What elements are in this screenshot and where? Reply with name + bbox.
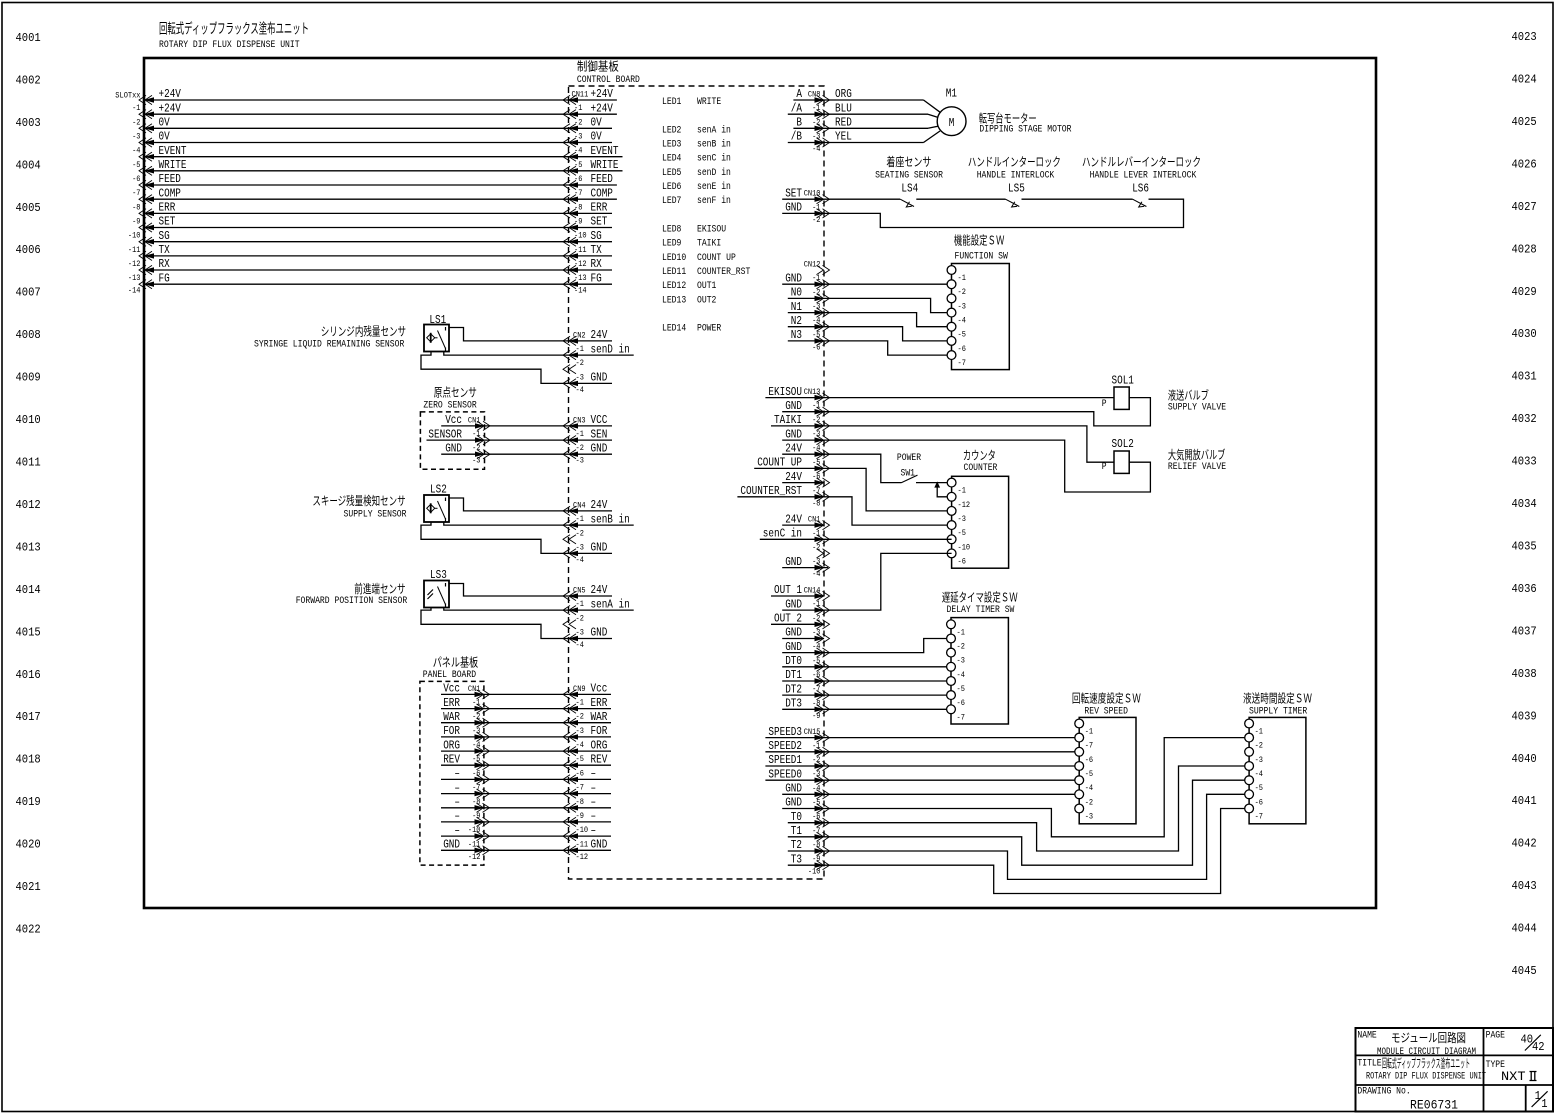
CN8 wire B / RED to motor — [793, 127, 824, 129]
svg-text:–: – — [454, 767, 460, 781]
CN9 stub wire WAR — [569, 722, 612, 724]
svg-text:-5: -5 — [132, 160, 140, 170]
svg-text:M1: M1 — [946, 87, 957, 101]
svg-text:SEN: SEN — [591, 427, 608, 441]
panel CN1 pin symbol 9 — [483, 803, 490, 812]
wire DT0 to delay timer contact 4 — [782, 666, 951, 668]
svg-text:Vcc: Vcc — [445, 413, 462, 427]
svg-text:GND: GND — [785, 271, 802, 285]
svg-text:4026: 4026 — [1512, 157, 1537, 171]
CN9 stub wire – — [569, 807, 612, 809]
svg-text:+24V: +24V — [159, 87, 182, 101]
svg-text:-6: -6 — [1255, 797, 1263, 807]
svg-text:-12: -12 — [958, 500, 971, 510]
supply timer contact circle -7 — [1245, 804, 1254, 813]
svg-text:DIPPING STAGE MOTOR: DIPPING STAGE MOTOR — [979, 124, 1072, 136]
CN1 pin symbol 1 — [823, 521, 830, 530]
svg-text:-12: -12 — [576, 852, 589, 862]
svg-text:42: 42 — [1532, 1040, 1545, 1054]
function SW contact circle 5 — [947, 322, 956, 331]
svg-text:-1: -1 — [957, 627, 965, 637]
CN13 pin symbol 8 — [823, 492, 830, 501]
svg-text:DT0: DT0 — [785, 654, 802, 668]
svg-text:シリンジ内残量センサ: シリンジ内残量センサ — [321, 325, 406, 340]
svg-text:CN5: CN5 — [573, 586, 586, 596]
svg-text:-14: -14 — [128, 286, 141, 296]
svg-text:-9: -9 — [576, 811, 584, 821]
svg-text:4035: 4035 — [1512, 540, 1537, 554]
svg-text:+24V: +24V — [159, 101, 182, 115]
svg-text:-2: -2 — [576, 358, 584, 368]
svg-text:GND: GND — [785, 201, 802, 215]
svg-text:TAIKI: TAIKI — [697, 238, 721, 250]
svg-text:-2: -2 — [472, 443, 480, 453]
svg-text:-5: -5 — [1255, 783, 1263, 793]
svg-text:CN1: CN1 — [468, 415, 481, 425]
svg-text:Vcc: Vcc — [591, 682, 608, 696]
sensor LS3 switch blade — [438, 587, 446, 605]
svg-text:GND: GND — [443, 838, 460, 852]
CN11 pin symbol 14 — [563, 280, 570, 289]
svg-text:senD in: senD in — [591, 342, 630, 356]
wire panel – pin10 CN1 to CN9 — [441, 821, 569, 823]
svg-text:4011: 4011 — [16, 456, 41, 470]
svg-text:WAR: WAR — [591, 710, 608, 724]
CN2 pin symbol 4 — [563, 379, 570, 388]
svg-text:-7: -7 — [576, 783, 584, 793]
svg-text:TX: TX — [159, 243, 170, 257]
svg-text:TITLE: TITLE — [1357, 1058, 1381, 1070]
CN11 stub wire ERR — [569, 212, 613, 214]
svg-text:-3: -3 — [574, 132, 582, 142]
svg-text:SPEED0: SPEED0 — [768, 767, 802, 781]
svg-text:GND: GND — [785, 399, 802, 413]
svg-text:OUT2: OUT2 — [697, 294, 716, 306]
wire 24V stub (CN1) — [782, 524, 824, 526]
svg-text:CN13: CN13 — [804, 387, 821, 397]
CN1 pin symbol 4 — [823, 563, 830, 572]
CN12 pin symbol 1 (no wire) — [823, 265, 830, 274]
delay timer contact circle 4 — [947, 662, 956, 671]
CN9 stub wire – — [569, 778, 612, 780]
CN3 stub wire VCC — [569, 425, 613, 427]
svg-text:4028: 4028 — [1512, 242, 1537, 256]
wire SLOT pin12 TX to CN11-12 — [144, 255, 569, 257]
CN8 wire /A / BLU to motor — [788, 113, 824, 115]
svg-text:COUNTER_RST: COUNTER_RST — [740, 484, 802, 498]
svg-text:SET: SET — [785, 186, 802, 200]
svg-text:-3: -3 — [472, 456, 480, 466]
svg-text:-9: -9 — [132, 217, 140, 227]
svg-text:senA in: senA in — [697, 124, 731, 136]
wire LS3 senA output to CN5 — [444, 608, 569, 611]
wire GND staircase to supply timer contact 2 — [782, 738, 1249, 837]
svg-text:EVENT: EVENT — [591, 144, 619, 158]
SLOT pin symbol 8 — [139, 195, 146, 204]
motor lead diagonals — [924, 100, 941, 143]
SLOT pin symbol 3 — [139, 124, 146, 133]
svg-text:CN10: CN10 — [804, 189, 821, 199]
svg-text:DT1: DT1 — [785, 668, 802, 682]
zero sensor CN1 pin symbol 3 — [483, 450, 490, 459]
svg-text:-11: -11 — [128, 245, 141, 255]
svg-text:LS4: LS4 — [901, 182, 918, 196]
CN9 stub wire ORG — [569, 750, 612, 752]
svg-text:SET: SET — [159, 215, 176, 229]
svg-text:-1: -1 — [576, 599, 584, 609]
panel board dashed box — [420, 681, 484, 865]
wire LS6 return loop to CN10 GND — [782, 199, 1183, 227]
panel CN1 pin symbol 10 — [483, 817, 490, 826]
CN11 stub wire 0V — [569, 142, 613, 144]
CN2 pin symbol 3 — [563, 365, 570, 374]
CN5 pin symbol 3 — [563, 620, 570, 629]
svg-text:4044: 4044 — [1512, 922, 1537, 936]
svg-text:SOL1: SOL1 — [1112, 374, 1134, 388]
svg-text:senC in: senC in — [763, 527, 802, 541]
svg-text:WAR: WAR — [443, 710, 460, 724]
rev speed contact circle pin -2 — [1075, 790, 1084, 799]
svg-text:4036: 4036 — [1512, 582, 1537, 596]
SLOT pin symbol 4 — [139, 138, 146, 147]
supply timer SW box — [1249, 717, 1306, 823]
svg-text:SUPPLY SENSOR: SUPPLY SENSOR — [344, 509, 408, 521]
svg-text:CONTROL BOARD: CONTROL BOARD — [577, 74, 640, 86]
svg-text:24V: 24V — [785, 470, 802, 484]
title block row divider 1 — [1356, 1054, 1554, 1056]
delay timer contact circle 6 — [947, 691, 956, 700]
svg-text:COMP: COMP — [591, 186, 613, 200]
svg-text:RELIEF VALVE: RELIEF VALVE — [1168, 461, 1226, 473]
CN11 stub wire FEED — [569, 184, 617, 186]
function SW contact circle 7 — [947, 351, 956, 360]
control board dashed outline — [569, 86, 825, 879]
svg-text:24V: 24V — [591, 328, 608, 342]
CN11 pin symbol 13 — [563, 265, 570, 274]
CN11 pin symbol 5 — [563, 152, 570, 161]
CN13 pin symbol 1 — [823, 393, 830, 402]
CN15 pin symbol 3 — [823, 761, 830, 770]
svg-text:GND: GND — [591, 441, 608, 455]
svg-text:senB in: senB in — [591, 512, 630, 526]
svg-text:-10: -10 — [958, 542, 971, 552]
svg-text:-1: -1 — [472, 429, 480, 439]
title block row divider 2 — [1356, 1084, 1554, 1086]
svg-text:0V: 0V — [591, 130, 603, 144]
svg-text:-6: -6 — [812, 342, 820, 352]
CN9 stub wire FOR — [569, 736, 612, 738]
svg-text:-2: -2 — [1085, 797, 1093, 807]
svg-text:0V: 0V — [591, 116, 603, 130]
wire T2 staircase to supply timer contact 6 — [788, 794, 1249, 879]
CN11 stub wire FG — [569, 283, 613, 285]
svg-text:4031: 4031 — [1512, 370, 1537, 384]
svg-text:LED11: LED11 — [662, 266, 686, 278]
CN9 pin symbol 4 — [563, 732, 570, 741]
svg-text:-9: -9 — [574, 217, 582, 227]
svg-text:-8: -8 — [574, 202, 582, 212]
svg-text:-14: -14 — [574, 286, 587, 296]
svg-text:-2: -2 — [576, 613, 584, 623]
page fraction slash — [1525, 1035, 1541, 1051]
wire senC in from counter contact 5 — [760, 538, 952, 540]
svg-text:-10: -10 — [808, 867, 821, 877]
CN12 pin symbol 2 — [823, 280, 830, 289]
title block column divider — [1483, 1028, 1485, 1112]
svg-text:-6: -6 — [958, 344, 966, 354]
svg-text:TAIKI: TAIKI — [774, 413, 802, 427]
svg-text:-3: -3 — [576, 628, 584, 638]
solenoid SOL2 relief valve coil — [1114, 451, 1129, 473]
CN2 stub wire 24V — [569, 340, 613, 342]
svg-text:ERR: ERR — [159, 201, 176, 215]
svg-text:SUPPLY TIMER: SUPPLY TIMER — [1249, 706, 1308, 718]
svg-text:N0: N0 — [791, 286, 802, 300]
CN11 pin symbol 7 — [563, 180, 570, 189]
svg-text:FEED: FEED — [591, 172, 613, 186]
CN12 pin symbol 5 — [823, 322, 830, 331]
right row labels 4023-4045 — [1512, 30, 1537, 978]
svg-text:LED9: LED9 — [662, 238, 681, 250]
svg-text:CN1: CN1 — [808, 515, 821, 525]
CN14 pin symbol 2 — [823, 606, 830, 615]
CN4 pin symbol 2 — [563, 521, 570, 530]
panel CN1 pin symbol 7 — [483, 775, 490, 784]
svg-text:T2: T2 — [791, 838, 802, 852]
svg-text:A: A — [796, 87, 802, 101]
CN12 pin symbol 3 — [823, 294, 830, 303]
svg-text:NAME: NAME — [1357, 1030, 1376, 1042]
wire T3 staircase to supply timer contact 7 — [788, 809, 1249, 894]
CN9 stub wire – — [569, 835, 612, 837]
svg-text:RX: RX — [159, 257, 170, 271]
wire LS4 to LS5 — [916, 198, 1005, 200]
svg-text:4039: 4039 — [1512, 709, 1537, 723]
wire COUNTER_RST to counter contact 4 — [737, 497, 951, 525]
svg-text:–: – — [591, 781, 597, 795]
svg-text:4027: 4027 — [1512, 200, 1537, 214]
CN2 pin symbol 2 — [563, 351, 570, 360]
svg-text:RE06731: RE06731 — [1410, 1099, 1458, 1113]
svg-text:LED10: LED10 — [662, 252, 686, 264]
svg-text:-2: -2 — [957, 642, 965, 652]
rev speed contact circle pin -3 — [1075, 804, 1084, 813]
svg-text:ROTARY DIP FLUX DISPENSE UNIT: ROTARY DIP FLUX DISPENSE UNIT — [1366, 1071, 1486, 1083]
CN10 pin symbol 1 — [823, 195, 830, 204]
panel CN1 pin symbol 6 — [483, 761, 490, 770]
svg-text:-4: -4 — [812, 144, 820, 154]
wire SLOT pin6 WRITE to CN11-6 — [144, 170, 569, 172]
wire panel GND pin12 CN1 to CN9 — [441, 849, 569, 851]
sensor LS3 box — [424, 581, 449, 608]
delay timer SW box — [951, 618, 1008, 724]
svg-text:-6: -6 — [957, 698, 965, 708]
svg-text:-10: -10 — [574, 231, 587, 241]
svg-text:-3: -3 — [132, 132, 140, 142]
panel CN1 pin symbol 4 — [483, 732, 490, 741]
SLOT pin symbol 11 — [139, 237, 146, 246]
CN8 pin symbol 3 — [823, 124, 830, 133]
svg-text:-13: -13 — [128, 273, 141, 283]
wire EKISOU to SOL1 — [765, 397, 1114, 399]
svg-text:4034: 4034 — [1512, 497, 1537, 511]
svg-text:4024: 4024 — [1512, 73, 1537, 87]
wire panel FOR pin4 CN1 to CN9 — [441, 736, 569, 738]
solenoid SOL1 supply valve coil — [1114, 387, 1129, 409]
supply timer contact circle -3 — [1245, 747, 1254, 756]
svg-text:senE in: senE in — [697, 181, 731, 193]
svg-text:–: – — [591, 823, 597, 837]
wire LS5 to LS6 — [1022, 198, 1133, 200]
CN8 wire /B / YEL to motor — [788, 142, 824, 144]
type II roman numeral — [1530, 1072, 1537, 1081]
wire SLOT pin7 FEED to CN11-7 — [144, 184, 569, 186]
wire LS3 GND to CN5 — [421, 608, 569, 639]
supply timer contact circle -4 — [1245, 762, 1254, 771]
svg-text:ORG: ORG — [835, 87, 852, 101]
motor M1 circle — [937, 107, 966, 136]
svg-text:+24V: +24V — [591, 101, 614, 115]
svg-text:4042: 4042 — [1512, 837, 1537, 851]
svg-text:1: 1 — [1541, 1097, 1547, 1111]
svg-text:SYRINGE LIQUID REMAINING SENSO: SYRINGE LIQUID REMAINING SENSOR — [254, 339, 405, 351]
CN9 pin symbol 2 — [563, 704, 570, 713]
svg-text:-7: -7 — [574, 188, 582, 198]
zero sensor CN1 pin symbol 1 — [483, 421, 490, 430]
function SW contact circle 2 — [947, 280, 956, 289]
svg-text:原点センサ: 原点センサ — [434, 386, 477, 401]
svg-text:SW1: SW1 — [901, 468, 916, 480]
svg-text:-1: -1 — [574, 103, 582, 113]
svg-text:4009: 4009 — [16, 371, 41, 385]
svg-text:PAGE: PAGE — [1486, 1030, 1505, 1042]
svg-text:液送時間設定ＳＷ: 液送時間設定ＳＷ — [1243, 691, 1312, 707]
svg-text:CN1: CN1 — [468, 684, 481, 694]
wire SLOT pin14 FG to CN11-14 — [144, 283, 569, 285]
svg-text:4018: 4018 — [16, 753, 41, 767]
panel CN1 pin symbol 5 — [483, 747, 490, 756]
CN13 pin symbol 2 — [823, 407, 830, 416]
CN5 pin symbol 1 — [563, 591, 570, 600]
svg-text:GND: GND — [785, 796, 802, 810]
CN9 pin symbol 12 — [563, 846, 570, 855]
CN3 pin symbol 3 — [563, 450, 570, 459]
counter contact circle pin -12 — [947, 492, 956, 501]
limit switch LS4 seating sensor contact — [900, 199, 914, 206]
svg-text:CN12: CN12 — [804, 260, 821, 270]
svg-text:SET: SET — [591, 215, 608, 229]
svg-text:-7: -7 — [1255, 812, 1263, 822]
svg-text:-12: -12 — [574, 259, 587, 269]
svg-text:CN15: CN15 — [804, 727, 821, 737]
svg-text:FOR: FOR — [591, 724, 608, 738]
svg-text:–: – — [454, 781, 460, 795]
wire SPEED1 to rev speed contact 4 — [765, 765, 1079, 767]
CN15 pin symbol 1 — [823, 733, 830, 742]
wire panel – pin11 CN1 to CN9 — [441, 835, 569, 837]
CN11 pin symbol 4 — [563, 138, 570, 147]
CN11 pin symbol 11 — [563, 237, 570, 246]
supply timer contact circle -5 — [1245, 776, 1254, 785]
svg-text:GND: GND — [591, 626, 608, 640]
sensor LS3 proximity symbol — [428, 590, 434, 600]
svg-text:LED14: LED14 — [662, 323, 686, 335]
svg-text:4001: 4001 — [16, 31, 41, 45]
wire LS2 24V to CN4 — [449, 498, 569, 511]
CN3 pin symbol 2 — [563, 436, 570, 445]
svg-text:機能設定ＳＷ: 機能設定ＳＷ — [954, 233, 1005, 249]
svg-text:GND: GND — [591, 541, 608, 555]
svg-text:-12: -12 — [468, 852, 481, 862]
svg-text:4045: 4045 — [1512, 964, 1537, 978]
wire GND (CN14-3) stub — [782, 638, 824, 640]
svg-text:0V: 0V — [159, 116, 171, 130]
svg-text:-3: -3 — [812, 557, 820, 567]
svg-text:SOL2: SOL2 — [1112, 437, 1134, 451]
svg-text:OUT 1: OUT 1 — [774, 583, 802, 597]
svg-text:–: – — [454, 795, 460, 809]
wire GND stub (CN1) — [782, 567, 828, 569]
limit switch LS5 handle interlock contact — [1006, 199, 1020, 206]
svg-text:EKISOU: EKISOU — [697, 224, 726, 236]
svg-text:4023: 4023 — [1512, 30, 1537, 44]
svg-text:4040: 4040 — [1512, 752, 1537, 766]
CN14 pin symbol 4 — [823, 634, 830, 643]
wire SLOT pin9 ERR to CN11-9 — [144, 212, 569, 214]
svg-text:4020: 4020 — [16, 838, 41, 852]
wire GND to function SW contact 2 — [782, 283, 951, 285]
svg-text:4004: 4004 — [16, 158, 41, 172]
svg-text:回転速度設定ＳＷ: 回転速度設定ＳＷ — [1072, 691, 1141, 707]
svg-text:回転式ディップフラックス塗布ユニット: 回転式ディップフラックス塗布ユニット — [1382, 1056, 1470, 1072]
svg-text:-2: -2 — [576, 443, 584, 453]
svg-text:SLOTxx: SLOTxx — [115, 90, 140, 100]
svg-text:4016: 4016 — [16, 668, 41, 682]
svg-text:-4: -4 — [576, 740, 584, 750]
svg-text:ORG: ORG — [443, 738, 460, 752]
CN5 stub wire 24V — [569, 595, 613, 597]
svg-text:-3: -3 — [958, 514, 966, 524]
wire N1 to function SW contact 5 — [788, 313, 952, 327]
wire LS1 GND to CN2 — [421, 352, 569, 384]
svg-text:senA in: senA in — [591, 597, 630, 611]
svg-text:NXT: NXT — [1501, 1069, 1526, 1084]
CN9 stub wire REV — [569, 764, 612, 766]
svg-text:DT3: DT3 — [785, 697, 802, 711]
CN9 stub wire Vcc — [569, 693, 612, 695]
svg-text:-5: -5 — [958, 528, 966, 538]
svg-text:-3: -3 — [957, 656, 965, 666]
svg-text:HANDLE LEVER INTERLOCK: HANDLE LEVER INTERLOCK — [1090, 170, 1197, 182]
CN1 pin symbol 3 (no wire) — [823, 549, 830, 558]
svg-text:FG: FG — [591, 271, 602, 285]
svg-text:-1: -1 — [576, 514, 584, 524]
CN11 pin symbol 9 — [563, 209, 570, 218]
svg-text:-9: -9 — [812, 711, 820, 721]
svg-text:OUT1: OUT1 — [697, 280, 716, 292]
svg-text:-3: -3 — [576, 726, 584, 736]
svg-text:-1: -1 — [958, 273, 966, 283]
CN14 pin symbol 1 — [823, 591, 830, 600]
CN14 pin symbol 9 — [823, 705, 830, 714]
wire SLOT pin3 0V to CN11-3 — [144, 127, 569, 129]
CN11 stub wire 0V — [569, 127, 613, 129]
svg-text:B: B — [796, 116, 802, 130]
sheet fraction slash — [1532, 1091, 1548, 1107]
CN14 pin symbol 6 — [823, 662, 830, 671]
svg-text:GND: GND — [591, 371, 608, 385]
svg-text:-1: -1 — [132, 103, 140, 113]
